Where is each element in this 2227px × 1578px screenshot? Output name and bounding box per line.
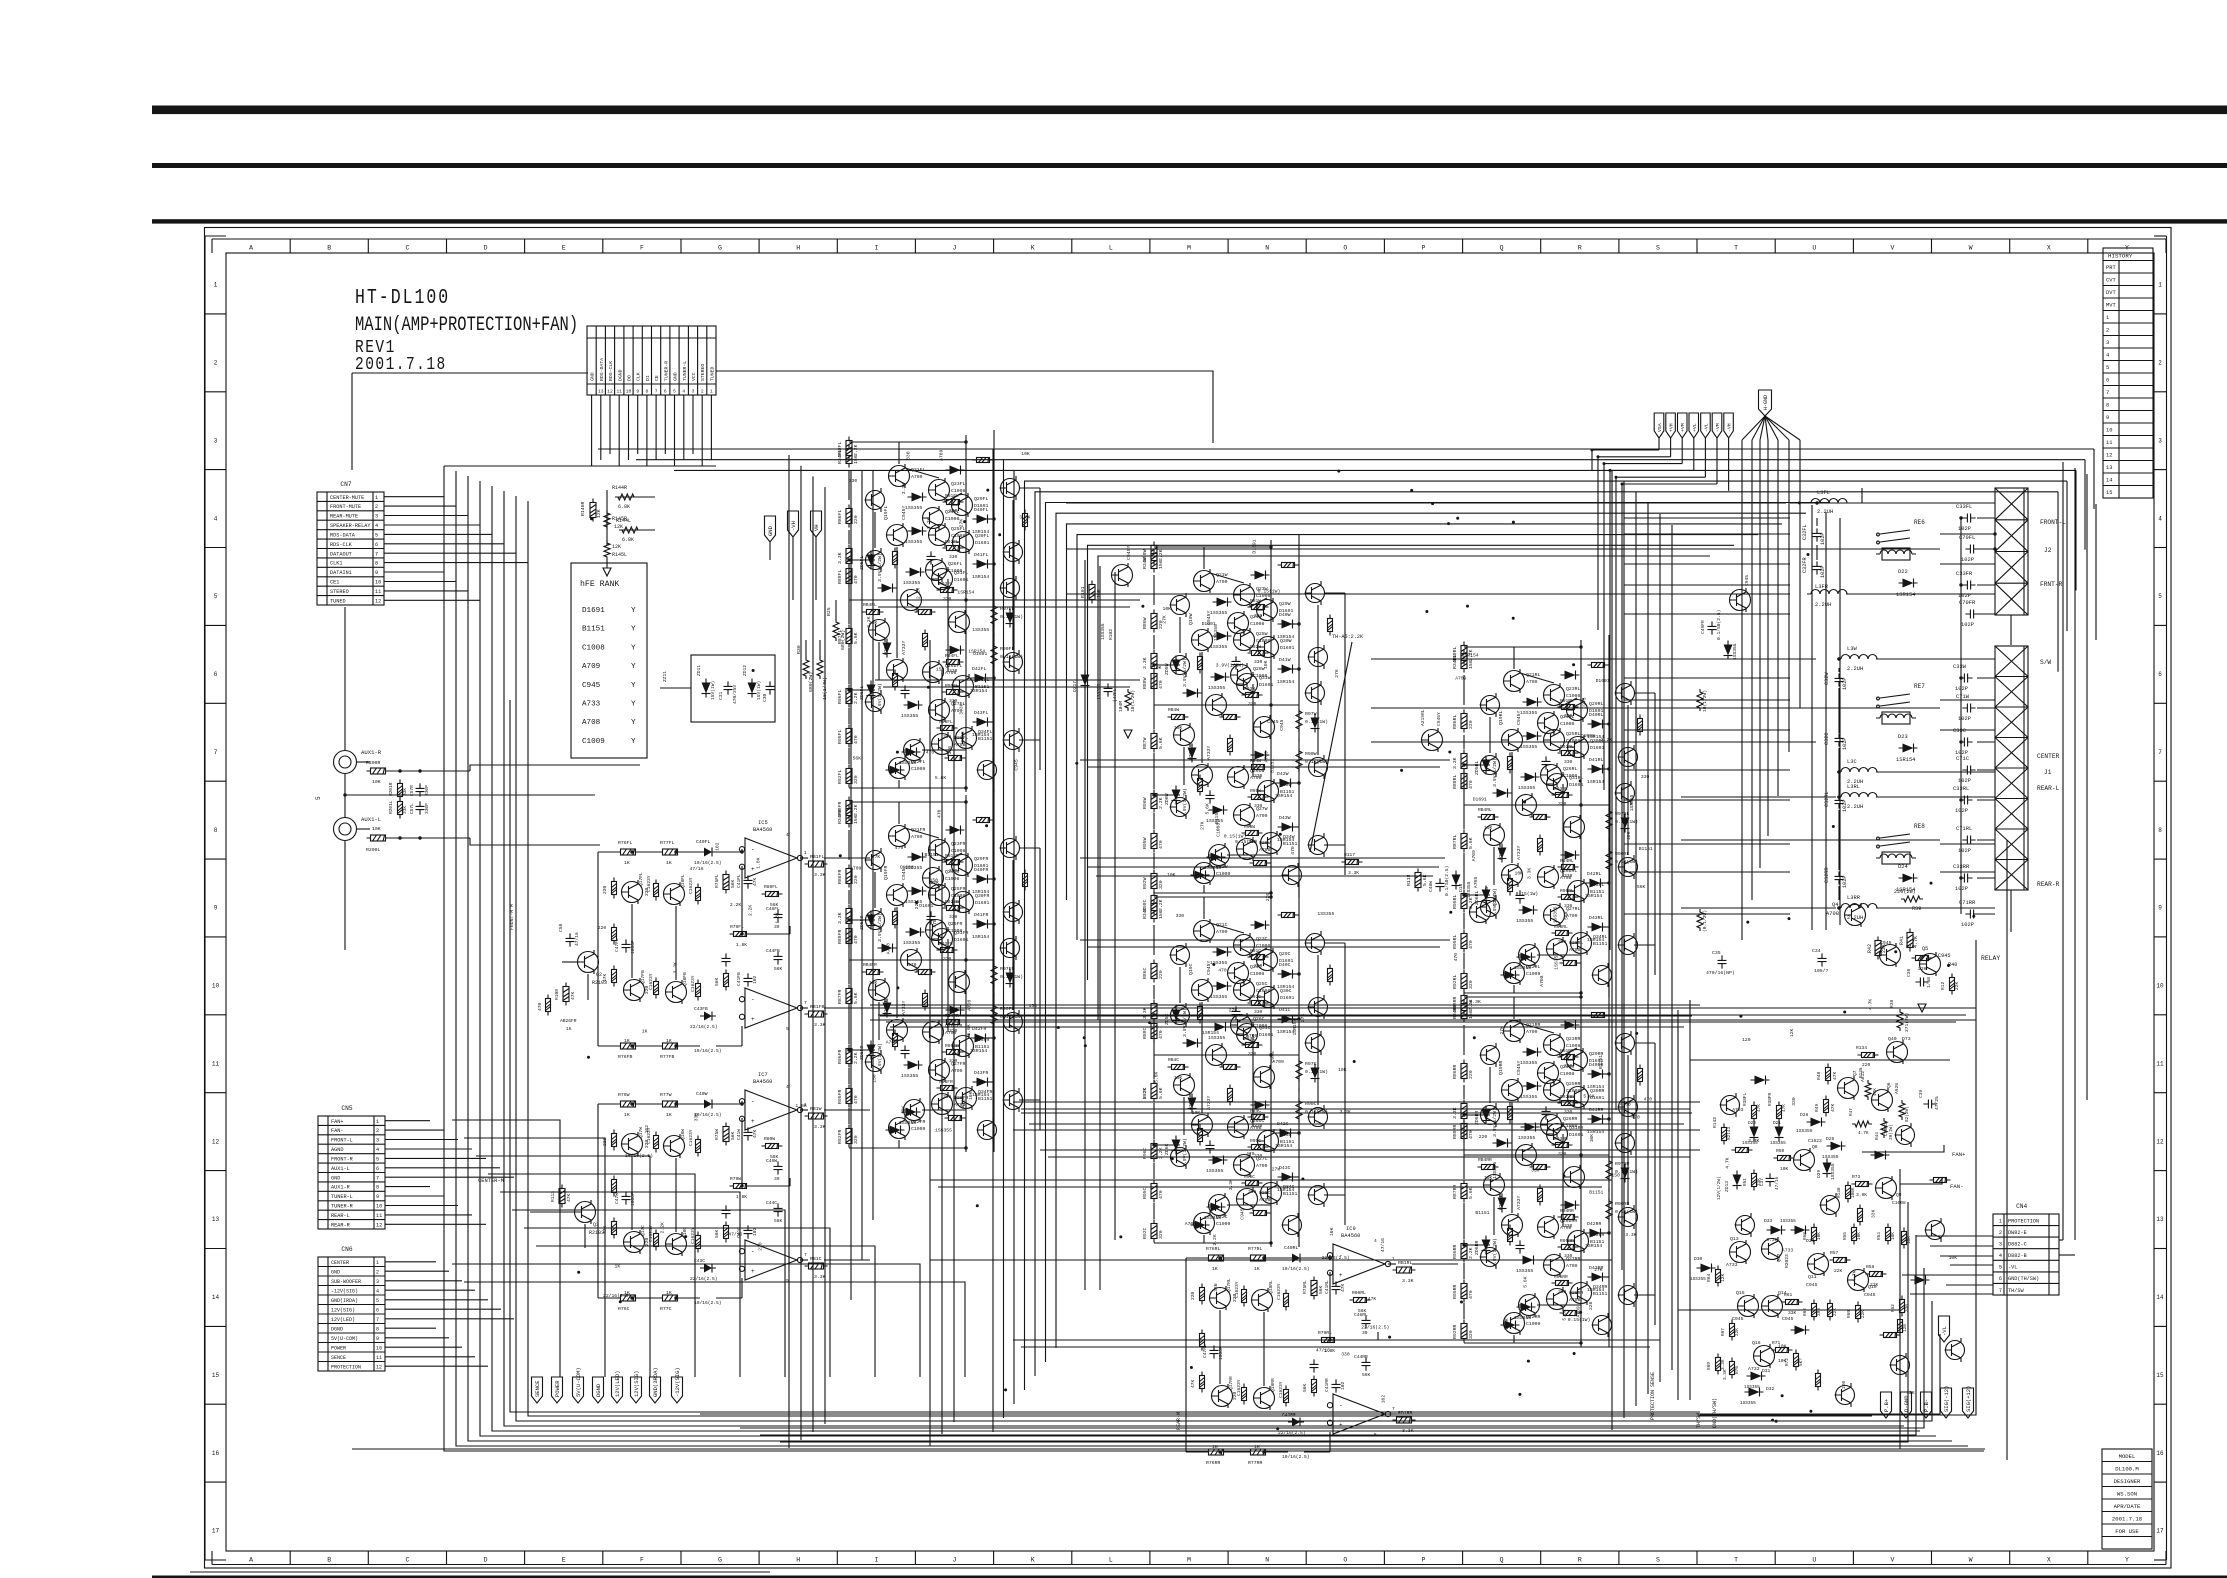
svg-text:3.3K: 3.3K: [1142, 657, 1148, 669]
transistor Q38C: [1209, 1193, 1230, 1217]
svg-text:22K: 22K: [1954, 981, 1960, 990]
wire R144: [606, 490, 608, 545]
transistor Q39RL: [1484, 823, 1505, 847]
resistor R92W: [1151, 870, 1157, 893]
transistor Q38RR: [1519, 1293, 1540, 1317]
resistor R53RL: [1560, 961, 1581, 966]
svg-text:1SS355: 1SS355: [1514, 1315, 1531, 1321]
resistor R38FR: [1777, 1102, 1782, 1123]
wire cn8 right: [716, 371, 1213, 443]
resistor R96RR: [1461, 1240, 1467, 1263]
wires right feeds: [1624, 518, 1790, 914]
svg-text:A709: A709: [1263, 751, 1269, 762]
wire ext1: [1464, 1154, 1537, 1156]
transistor Q18RL: [1252, 1288, 1273, 1312]
wire cluster int: [1464, 997, 1609, 1343]
svg-text:D882-C: D882-C: [2008, 1242, 2027, 1248]
svg-text:R92RL: R92RL: [1452, 974, 1458, 989]
svg-text:7: 7: [375, 551, 378, 557]
svg-text:220: 220: [1468, 720, 1474, 729]
svg-text:10K: 10K: [1329, 1227, 1335, 1236]
wire ext5: [1039, 488, 1041, 770]
svg-text:R95RL: R95RL: [1452, 934, 1458, 949]
transistor Q53FL: [1003, 540, 1023, 564]
svg-text:Q31W: Q31W: [1259, 675, 1271, 681]
junction aux: [343, 793, 346, 796]
flag SIG(+12): [1963, 1386, 1974, 1418]
resistor R96bFR: [937, 1086, 958, 1091]
svg-text:C945: C945: [1744, 575, 1750, 586]
junction: [1579, 995, 1582, 998]
junction: [1328, 1256, 1331, 1259]
power flags: [1654, 413, 1733, 491]
svg-text:R90W: R90W: [1305, 751, 1317, 757]
svg-text:120: 120: [1841, 1381, 1847, 1390]
svg-text:330P: 330P: [424, 785, 430, 796]
wire zd11 left: [660, 687, 691, 689]
transistor Q57FR: [1003, 1088, 1023, 1112]
svg-text:Q: Q: [1500, 245, 1504, 252]
svg-text:3: 3: [376, 1279, 379, 1285]
resistor R78RL: [1200, 1372, 1205, 1393]
svg-text:Q23FR: Q23FR: [951, 841, 966, 847]
svg-text:D1691: D1691: [954, 577, 969, 583]
svg-text:A708: A708: [1539, 975, 1545, 986]
resistor R142: [1722, 1124, 1727, 1145]
svg-text:0.15(1W): 0.15(1W): [1224, 834, 1247, 840]
diode D41RR: [1588, 1115, 1607, 1124]
svg-text:X: X: [2047, 245, 2051, 252]
capacitor C45FR: [901, 1045, 910, 1058]
svg-text:Q18RR: Q18RR: [1270, 1378, 1276, 1392]
transistor Q25C: [1234, 978, 1255, 1002]
svg-text:A733Y: A733Y: [1206, 745, 1212, 760]
header bar 2: [152, 163, 2227, 168]
svg-text:SENCE: SENCE: [534, 1380, 541, 1397]
svg-text:330: 330: [949, 914, 958, 920]
junction: [1462, 893, 1465, 896]
svg-text:47K: 47K: [1340, 1283, 1346, 1292]
junction: [964, 440, 967, 443]
diode D33RR: [1519, 1256, 1538, 1265]
svg-text:220: 220: [602, 885, 608, 894]
svg-text:R86RL: R86RL: [1452, 714, 1458, 729]
svg-text:R77W: R77W: [660, 1092, 672, 1098]
transistor Q39W: [1174, 723, 1195, 747]
svg-text:MODEL: MODEL: [2119, 1453, 2136, 1460]
svg-text:C32C: C32C: [1824, 733, 1830, 745]
svg-text:R34RR: R34RR: [1452, 1004, 1458, 1019]
svg-text:PRT: PRT: [2106, 265, 2116, 271]
svg-text:C1009: C1009: [1526, 1321, 1541, 1327]
svg-text:RB4FR: RB4FR: [863, 962, 877, 968]
svg-text:220: 220: [598, 925, 607, 931]
capacitor C48W: [1436, 878, 1445, 891]
title MAIN(AMP+PROTECTION+FAN): [355, 314, 578, 336]
svg-text:B1151: B1151: [582, 626, 605, 634]
svg-text:R69: R69: [1847, 1310, 1852, 1318]
transistor Q37W: [1470, 900, 1491, 924]
resistor R84RR: [1478, 1165, 1499, 1170]
transistor Q33RL: [1568, 879, 1589, 903]
svg-text:3.3K: 3.3K: [1470, 999, 1481, 1005]
capacitor C45FL: [901, 685, 910, 698]
svg-text:7: 7: [376, 1175, 379, 1181]
resistor R84FL: [863, 610, 884, 615]
svg-text:330: 330: [1564, 1223, 1573, 1229]
svg-text:10K: 10K: [1780, 1166, 1789, 1172]
svg-text:Q: Q: [1500, 1557, 1504, 1564]
title 2001.7.18: [355, 354, 447, 375]
svg-text:A708: A708: [1569, 1297, 1581, 1303]
svg-text:330: 330: [949, 668, 958, 674]
svg-text:R108: R108: [554, 989, 560, 1000]
svg-text:R95FR: R95FR: [945, 1043, 959, 1049]
transistor QP1: [1895, 1123, 1915, 1147]
resistor R50FR: [973, 818, 994, 823]
svg-text:C945: C945: [1582, 697, 1588, 708]
svg-text:ZD12: ZD12: [742, 665, 748, 676]
resistor R96bC: [1242, 1181, 1263, 1186]
svg-text:C: C: [405, 1557, 409, 1564]
resistor R96FR: [846, 1045, 852, 1068]
svg-text:Q29FR: Q29FR: [974, 856, 989, 862]
svg-text:1/50: 1/50: [1926, 977, 1932, 988]
svg-text:A219RL: A219RL: [1420, 709, 1426, 726]
svg-text:2.2K: 2.2K: [853, 444, 859, 456]
diode D34RL: [1517, 953, 1536, 962]
svg-text:TUNED: TUNED: [330, 598, 346, 604]
wire prot v1: [1689, 1000, 1691, 1400]
svg-text:47K: 47K: [566, 1193, 572, 1202]
resistor R80FL: [762, 892, 783, 897]
svg-text:10: 10: [376, 1204, 382, 1210]
svg-text:GND: GND: [673, 372, 679, 381]
svg-text:10: 10: [626, 389, 632, 395]
svg-text:S: S: [1656, 245, 1660, 252]
svg-text:C43FB: C43FB: [694, 1006, 708, 1012]
svg-text:470: 470: [537, 1002, 543, 1011]
transistor Q33W: [1258, 779, 1279, 803]
diode D48FR: [883, 999, 892, 1018]
diode D50FR: [946, 826, 965, 835]
svg-text:12K: 12K: [612, 544, 621, 550]
svg-text:C46FL: C46FL: [766, 906, 780, 912]
transistor Q31FL: [932, 567, 953, 591]
resistor R113: [559, 1185, 565, 1208]
svg-text:470: 470: [895, 845, 904, 851]
capacitor C41C: [744, 1225, 753, 1238]
svg-text:D41RR: D41RR: [1589, 1107, 1604, 1113]
svg-text:102P: 102P: [1961, 922, 1974, 928]
resistor R86W: [1151, 610, 1157, 633]
diode D40RR: [1588, 1070, 1607, 1079]
transistor Q23C: [1234, 933, 1255, 957]
wire ext4: [1489, 717, 1491, 753]
capacitor C42C: [1232, 1006, 1241, 1019]
svg-text:CE1: CE1: [330, 580, 339, 586]
transistor Q57W: [1308, 833, 1328, 857]
svg-text:3.9K: 3.9K: [1856, 1192, 1867, 1198]
bus mid verticals: [789, 455, 954, 1448]
svg-text:33K: 33K: [1870, 1209, 1876, 1218]
svg-text:470: 470: [1158, 680, 1164, 689]
svg-text:470: 470: [1246, 1151, 1255, 1157]
svg-text:REAR-MUTE: REAR-MUTE: [330, 514, 358, 520]
svg-text:470: 470: [961, 1099, 967, 1108]
resistor RB1W: [805, 1113, 828, 1119]
svg-text:1SS355: 1SS355: [1520, 710, 1537, 716]
svg-text:15: 15: [212, 1372, 220, 1379]
resistor R34FR: [846, 805, 852, 828]
transistor Q19FR: [887, 883, 908, 907]
resistor R95W: [1151, 830, 1157, 853]
svg-text:R58: R58: [1803, 1232, 1808, 1240]
svg-text:RE8: RE8: [1914, 823, 1925, 830]
resistor R44: [1881, 1118, 1887, 1138]
svg-text:D1691: D1691: [1280, 995, 1295, 1001]
svg-text:10K: 10K: [1174, 725, 1183, 731]
svg-text:1SS355: 1SS355: [1206, 1168, 1223, 1174]
diode D40FR: [973, 875, 992, 884]
transistor Q29RL: [1567, 698, 1588, 722]
svg-text:2001.7.18: 2001.7.18: [2112, 1515, 2142, 1522]
svg-text:B1151: B1151: [925, 852, 939, 858]
transistor Q34RR: [1571, 1281, 1592, 1305]
junction: [1218, 1450, 1221, 1453]
svg-text:220: 220: [1588, 1301, 1594, 1310]
capacitor C46FL: [774, 909, 783, 922]
svg-text:15: 15: [2156, 1372, 2164, 1379]
transistor Q34FL: [956, 726, 977, 750]
transistor Q51FL: [865, 548, 885, 572]
resistor R97RR: [1606, 1158, 1612, 1182]
svg-text:+: +: [751, 866, 755, 873]
resistor R140: [1846, 1182, 1851, 1203]
transistor Q23RL: [1544, 683, 1565, 707]
svg-text:-VL: -VL: [1941, 1326, 1948, 1336]
svg-text:R95C: R95C: [1250, 1138, 1261, 1144]
zener ZD6FL: [867, 681, 876, 700]
resistor R42: [1875, 937, 1881, 960]
svg-text:6: 6: [664, 389, 667, 395]
svg-text:104M: 104M: [1118, 701, 1124, 712]
resistor RP4: [1930, 1178, 1951, 1183]
wire ext3: [1317, 955, 1319, 1105]
junction: [1152, 1143, 1155, 1146]
resistor R99FR: [846, 905, 852, 928]
resistor R85FR: [915, 970, 936, 975]
svg-text:4: 4: [375, 523, 378, 529]
svg-text:Q17RR: Q17RR: [1228, 1376, 1234, 1390]
junction: [847, 1048, 850, 1051]
resistor R87C: [1151, 1080, 1157, 1103]
zener ZD13: [1733, 1171, 1742, 1190]
svg-text:1SS355: 1SS355: [1100, 623, 1106, 640]
svg-text:H: H: [796, 1557, 800, 1564]
svg-text:220: 220: [1479, 1134, 1488, 1140]
svg-text:CENTER: CENTER: [2037, 753, 2060, 760]
resistor R52RR: [1508, 1225, 1513, 1246]
svg-text:12K: 12K: [596, 509, 602, 518]
capacitor C42RR: [1542, 1106, 1551, 1119]
svg-text:R142: R142: [1712, 1117, 1718, 1128]
svg-text:Q9: Q9: [1896, 1192, 1902, 1198]
diode D48RR: [1498, 1194, 1507, 1213]
svg-text:FAN+: FAN+: [1952, 1151, 1966, 1158]
svg-text:GND(IRDA): GND(IRDA): [331, 1298, 358, 1304]
svg-text:C33FL: C33FL: [1956, 504, 1972, 510]
junction: [674, 1296, 677, 1299]
resistor R75RL: [1311, 1277, 1317, 1300]
svg-text:DVT: DVT: [2106, 290, 2116, 296]
svg-text:3.3K: 3.3K: [1748, 1138, 1759, 1144]
svg-text:D43RL: D43RL: [1589, 915, 1604, 921]
svg-text:1SS355: 1SS355: [899, 1120, 916, 1126]
resistor R95bC: [1248, 1145, 1269, 1150]
capacitor C33C: [1959, 738, 1972, 747]
svg-text:320: 320: [1468, 1330, 1474, 1339]
resistor R95bFL: [943, 690, 964, 695]
svg-text:C1623Y: C1623Y: [1276, 1283, 1282, 1300]
svg-text:56K: 56K: [774, 1218, 783, 1224]
svg-text:R117: R117: [1344, 852, 1355, 858]
svg-text:1SR154: 1SR154: [1275, 1143, 1292, 1149]
resistor R53FR: [945, 1116, 966, 1121]
svg-text:DO: DO: [627, 375, 633, 381]
resistor R96bRR: [1552, 1281, 1573, 1286]
diode D34FL: [902, 748, 921, 757]
resistor R77FB: [659, 1043, 682, 1049]
svg-text:10/16(2.5): 10/16(2.5): [694, 1300, 722, 1306]
svg-text:330: 330: [949, 868, 958, 874]
svg-text:1K: 1K: [642, 1029, 648, 1035]
svg-text:RB1FL: RB1FL: [810, 854, 825, 860]
svg-text:10/16(2.5): 10/16(2.5): [1282, 1454, 1310, 1460]
transistor QP3: [1820, 1193, 1840, 1217]
diode D51RR: [1561, 1201, 1580, 1210]
svg-text:12K: 12K: [1789, 1028, 1795, 1037]
transistor Q20RR: [1502, 1213, 1523, 1237]
svg-text:AUX1-L: AUX1-L: [331, 1166, 350, 1172]
resistor R50C: [1278, 913, 1299, 918]
svg-text:L3C: L3C: [1847, 759, 1857, 765]
svg-text:9: 9: [2106, 415, 2109, 421]
svg-text:0.1/50(2.5): 0.1/50(2.5): [1444, 866, 1450, 896]
resistor R38FL: [1752, 1102, 1757, 1123]
svg-text:+: +: [751, 1118, 755, 1125]
svg-text:330: 330: [1564, 759, 1573, 765]
svg-text:220: 220: [1190, 1291, 1196, 1300]
diode D31RL: [1523, 732, 1542, 741]
svg-text:C1623Y: C1623Y: [688, 1129, 694, 1146]
transistor Q2: [578, 950, 599, 974]
svg-text:Q19RL: Q19RL: [1498, 710, 1504, 725]
junction: [1579, 803, 1582, 806]
svg-text:TUNER-L: TUNER-L: [331, 1194, 353, 1200]
svg-text:R87RL: R87RL: [1452, 834, 1458, 849]
transistor Q29FL: [952, 493, 973, 517]
svg-text:5: 5: [673, 389, 676, 395]
transistor QP0: [1720, 1093, 1740, 1117]
svg-text:22K: 22K: [1870, 1282, 1879, 1288]
svg-text:Q17W: Q17W: [638, 1127, 644, 1138]
svg-text:1SR154: 1SR154: [1277, 1187, 1294, 1193]
svg-text:330: 330: [1558, 801, 1567, 807]
transistor Q58C: [1282, 1213, 1302, 1237]
junction: [1607, 881, 1610, 884]
svg-text:330: 330: [1254, 659, 1263, 665]
bus hgnd verticals: [1742, 500, 1800, 940]
diode D18: [1452, 871, 1461, 890]
resistor R87FR: [846, 985, 852, 1008]
svg-text:7: 7: [1392, 1406, 1395, 1412]
wire thick main: [510, 700, 1700, 1412]
svg-text:Q15: Q15: [1736, 1290, 1745, 1296]
svg-text:0.15(1W): 0.15(1W): [1568, 1317, 1591, 1323]
junction: [1297, 622, 1300, 625]
svg-text:Q28W: Q28W: [1259, 840, 1271, 846]
svg-text:V: V: [1890, 1557, 1894, 1564]
svg-text:R95W: R95W: [1250, 788, 1261, 794]
svg-text:1SR154: 1SR154: [1587, 1287, 1604, 1293]
resistor R30: [803, 657, 809, 679]
transistor Q22RR: [1504, 1311, 1525, 1335]
transistor Q31W: [1237, 672, 1258, 696]
svg-text:39(1W): 39(1W): [1889, 1124, 1894, 1140]
svg-text:E: E: [562, 1557, 566, 1564]
resistor R84RL: [1478, 815, 1499, 820]
svg-text:AUX1-R: AUX1-R: [331, 1185, 350, 1191]
junction: [1297, 1131, 1300, 1134]
resistor R55: [1852, 1224, 1857, 1245]
svg-text:J: J: [953, 245, 957, 252]
transistor Q19W: [1192, 628, 1213, 652]
svg-text:220: 220: [853, 875, 859, 884]
capacitor C71RR: [1965, 910, 1978, 919]
capacitor C47RL: [1210, 1345, 1219, 1358]
svg-text:330: 330: [1564, 903, 1573, 909]
svg-text:12: 12: [376, 1364, 382, 1370]
transistor Q19RR: [1502, 1078, 1523, 1102]
svg-text:1SS355: 1SS355: [1830, 1163, 1836, 1180]
svg-text:S: S: [1656, 1557, 1660, 1564]
resistor Rx1: [612, 1176, 617, 1197]
svg-text:RELAY: RELAY: [1981, 955, 2000, 962]
svg-text:102P: 102P: [1958, 778, 1971, 784]
svg-text:R76FL: R76FL: [618, 840, 633, 846]
diode D17: [1081, 671, 1090, 690]
capacitor C32RR: [1835, 871, 1844, 884]
svg-text:330: 330: [1341, 1352, 1350, 1358]
svg-text:Q26RR: Q26RR: [1563, 1116, 1578, 1122]
flag D-GND: [1901, 1392, 1912, 1418]
resistor R34RR: [1461, 1000, 1467, 1023]
wire ext7: [1019, 739, 1040, 741]
resistor R90C: [1296, 1098, 1302, 1122]
svg-text:470: 470: [1158, 1030, 1164, 1039]
svg-text:10(1/2W): 10(1/2W): [1130, 690, 1136, 712]
svg-text:R40: R40: [1906, 944, 1915, 950]
transistor Q52RL: [1615, 681, 1635, 705]
header bar 3: [152, 219, 2227, 223]
wire fan-: [1900, 1178, 1942, 1184]
resistor R98FL: [846, 437, 852, 460]
svg-text:330: 330: [943, 1094, 952, 1100]
wire cn4: [1902, 1236, 1993, 1294]
transistor Q56W: [1308, 755, 1328, 779]
svg-text:4.7K: 4.7K: [1725, 1157, 1731, 1168]
